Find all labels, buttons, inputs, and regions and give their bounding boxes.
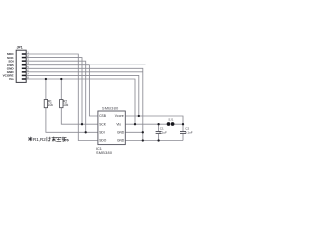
- JP1 pin numbers: [27, 51, 29, 80]
- svg-text:SMB380: SMB380: [102, 105, 119, 110]
- svg-text:SMB380: SMB380: [96, 151, 112, 155]
- solder jumper SJ1 pads: [167, 122, 175, 126]
- wire R2 bottom lead to IC SCK pin: [61, 108, 97, 124]
- wire Vio rail: IC pin to SJ1 left pad: [126, 123, 167, 125]
- resistor R1 body: [44, 100, 47, 108]
- resistor R2 body: [60, 100, 63, 108]
- svg-text:JP1: JP1: [17, 46, 23, 50]
- wire faint stub on CSB row: [89, 64, 145, 66]
- node Vio vertical on Vio rail: [134, 123, 136, 125]
- svg-text:GND: GND: [117, 139, 125, 143]
- node C1 bottom: [157, 139, 159, 141]
- wire SCK: JP1 pin2 down to SCK row: [26, 58, 82, 125]
- svg-text:CSB: CSB: [99, 114, 106, 118]
- wire C1 bottom lead: [158, 134, 160, 141]
- glyph kome mark: [28, 137, 32, 141]
- wire VCORE: JP1 pin7 down to Vcore row: [26, 75, 139, 116]
- svg-text:SJ1: SJ1: [168, 118, 174, 122]
- node SDI vertical joins R1 row: [85, 131, 87, 133]
- wire SDO: JP1 pin1 to IC SDO pin: [26, 54, 97, 141]
- wire CSB: JP1 pin4 to IC CSB pin: [26, 65, 97, 116]
- wire R2 top lead: [60, 79, 62, 100]
- node GND vertical on IC GND row: [142, 131, 144, 133]
- wire C2 top lead: [182, 124, 184, 131]
- wire GND A: JP1 pin5 right and down to bottom rail: [26, 68, 143, 140]
- note text: R1,R2 not mounted: [28, 137, 68, 143]
- svg-text:SDO: SDO: [99, 139, 107, 143]
- glyph ha: [47, 137, 51, 142]
- svg-text:SCK: SCK: [99, 122, 107, 126]
- wire R1 top lead: [45, 79, 47, 100]
- svg-text:0.1uF: 0.1uF: [185, 131, 193, 135]
- svg-text:SDI: SDI: [99, 130, 105, 134]
- capacitor C2 plates: [180, 132, 186, 134]
- svg-text:R1,R2: R1,R2: [33, 137, 46, 142]
- svg-text:Vcore: Vcore: [115, 114, 124, 118]
- svg-text:10k: 10k: [63, 103, 69, 107]
- wire C1 top lead: [158, 124, 160, 131]
- JP1 signal name labels: [3, 52, 15, 81]
- IC1 right pin name labels: [115, 114, 125, 143]
- wire SJ1 right pad to rail end node: [175, 123, 184, 125]
- wire Vio: JP1 pin8 down to Vio rail: [26, 79, 135, 124]
- wire bottom GND rail: [126, 140, 183, 142]
- wire R1 bottom lead to IC SDI pin: [46, 108, 98, 133]
- wire GND B: JP1 pin6 joining GND vertical: [26, 71, 143, 73]
- svg-text:Vio: Vio: [9, 77, 14, 81]
- svg-text:0.1uF: 0.1uF: [159, 131, 167, 135]
- node SCK vertical joins R2 row: [81, 123, 83, 125]
- svg-text:10k: 10k: [48, 103, 54, 107]
- connector JP1 pin pads: [22, 53, 26, 80]
- glyph jitsu: [56, 137, 61, 141]
- glyph period: [67, 140, 69, 142]
- node C1 top: [157, 123, 159, 125]
- node R2 top on Vio row: [60, 78, 62, 80]
- node Vcore/C2 rail end: [182, 123, 184, 125]
- IC1 left pin name labels: [99, 114, 107, 143]
- node VCORE vertical on Vcore row: [138, 115, 140, 117]
- wire IC GND pin row 3 to GND vertical: [126, 131, 143, 133]
- junction dots: [45, 78, 184, 142]
- connector JP1 body: [16, 50, 26, 82]
- node GND vertical on bottom rail: [142, 139, 144, 141]
- svg-text:Vio: Vio: [116, 122, 121, 126]
- op-amp U1 = IC1 sensor body: [98, 111, 125, 145]
- svg-text:GND: GND: [117, 130, 125, 134]
- capacitor C1 plates: [156, 132, 162, 134]
- glyph mi (un): [52, 137, 56, 142]
- glyph sou: [62, 137, 67, 142]
- wire SDI: JP1 pin3 down to SDI row: [26, 61, 85, 132]
- wire Vcore row: IC pin right, corner down to rail end node: [126, 116, 183, 124]
- node R1 top on Vio row: [45, 78, 47, 80]
- wire C2 bottom lead: [182, 134, 184, 141]
